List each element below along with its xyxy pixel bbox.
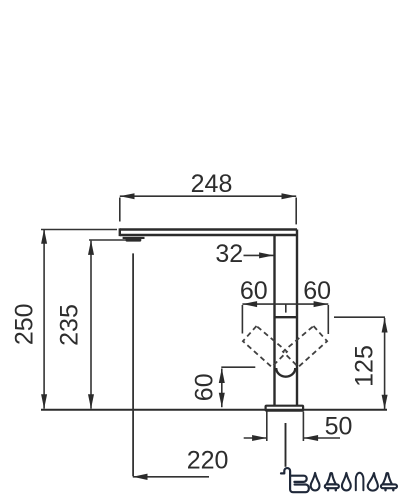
svg-text:60: 60 — [190, 373, 218, 401]
svg-text:32: 32 — [215, 240, 243, 268]
svg-text:250: 250 — [11, 303, 39, 345]
svg-text:248: 248 — [191, 170, 233, 198]
svg-text:60: 60 — [240, 277, 268, 305]
svg-text:50: 50 — [325, 412, 353, 440]
svg-text:235: 235 — [56, 304, 84, 346]
svg-text:220: 220 — [187, 446, 229, 474]
svg-text:125: 125 — [351, 345, 379, 387]
svg-text:60: 60 — [303, 277, 331, 305]
